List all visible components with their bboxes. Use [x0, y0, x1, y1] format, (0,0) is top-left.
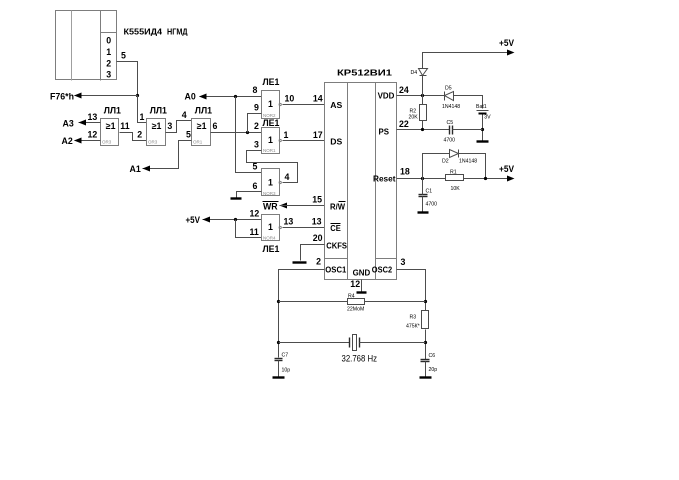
- svg-text:32.768 Hz: 32.768 Hz: [342, 353, 378, 363]
- diode D5: [445, 92, 454, 101]
- decoder output column divider: [101, 32, 117, 34]
- svg-text:ЛЕ1: ЛЕ1: [263, 118, 280, 128]
- ground CKFS: [293, 261, 307, 263]
- svg-text:D5: D5: [445, 86, 452, 92]
- arrow WR: [280, 203, 288, 209]
- wire Reset pin18 line: [397, 178, 446, 180]
- svg-text:1N4148: 1N4148: [459, 158, 477, 164]
- svg-text:20p: 20p: [429, 367, 438, 373]
- svg-text:12: 12: [250, 209, 260, 219]
- capacitor C5 plate left: [449, 126, 451, 135]
- wire C6 bottom: [425, 362, 427, 377]
- arrow A3: [79, 120, 87, 126]
- capacitor C7 plate top: [275, 358, 283, 360]
- svg-text:AS: AS: [330, 100, 342, 110]
- svg-text:NOR3: NOR3: [263, 191, 276, 196]
- wire A0 vertical to NOR3 in5: [236, 97, 262, 173]
- ground C1: [418, 211, 429, 213]
- arrow +5V left: [203, 217, 211, 223]
- SECTION: bottom circuit: [273, 270, 438, 378]
- wire R4 line left: [279, 301, 348, 303]
- svg-text:C5: C5: [447, 120, 454, 126]
- SECTION: decoder block: [50, 11, 188, 123]
- svg-text:2: 2: [254, 121, 259, 131]
- svg-text:ЛЛ1: ЛЛ1: [104, 106, 121, 116]
- svg-text:14: 14: [313, 94, 323, 104]
- svg-text:20: 20: [313, 233, 323, 243]
- wire C1 bottom: [422, 197, 424, 212]
- resistor R4 body: [348, 299, 365, 305]
- wire pin24 up to +5V: [422, 76, 424, 96]
- svg-text:4700: 4700: [444, 137, 456, 143]
- ground C6: [420, 376, 432, 378]
- wire NOR3 in6 to ground: [237, 192, 262, 198]
- node R1-D2 junction: [484, 177, 487, 180]
- svg-text:НГМД: НГМД: [167, 27, 188, 37]
- wire C5 to battery junction: [453, 129, 483, 131]
- wire C7 bottom: [278, 361, 280, 377]
- svg-text:1: 1: [268, 135, 273, 145]
- svg-text:+5V: +5V: [499, 164, 514, 174]
- svg-text:VDD: VDD: [378, 91, 395, 101]
- SECTION: main chip: [293, 68, 410, 293]
- wire junction down to OR2 input 1: [138, 96, 147, 123]
- wire crystal line left: [279, 342, 350, 344]
- crystal ZQ1 plate left: [349, 338, 351, 348]
- battery Bat1 long plate: [477, 110, 489, 112]
- svg-text:24: 24: [399, 85, 409, 95]
- svg-text:WR: WR: [263, 201, 278, 211]
- svg-text:CE: CE: [330, 223, 341, 233]
- or-gate DD2.1 LL1 body: [101, 119, 119, 146]
- pin name R/W overline: [339, 201, 346, 203]
- svg-text:6: 6: [253, 181, 258, 191]
- diode D2 cathode bar: [458, 150, 460, 158]
- svg-text:475К*: 475К*: [406, 323, 420, 329]
- svg-text:C7: C7: [282, 352, 289, 358]
- svg-text:OR3: OR3: [148, 140, 158, 145]
- svg-text:3: 3: [401, 257, 406, 267]
- node OSC2-R4 junction: [424, 300, 427, 303]
- capacitor C6 plate top: [421, 359, 430, 361]
- ground GND pin: [357, 291, 367, 293]
- wire R2 bottom: [422, 121, 424, 130]
- svg-text:1: 1: [284, 130, 289, 140]
- wire D5 to battery top: [454, 96, 483, 109]
- svg-text:22: 22: [399, 119, 409, 129]
- wire R1 to +5V arrow: [464, 178, 508, 180]
- nor-gate DD3.4 output bubble: [279, 226, 281, 228]
- node pin18 junction C1: [421, 177, 424, 180]
- nor-gate DD3.1 body: [262, 91, 280, 119]
- arrow +5V reset: [507, 176, 515, 182]
- IC U1 divider left: [347, 83, 349, 280]
- ground battery: [477, 140, 489, 142]
- node battery-C5 junction: [481, 128, 484, 131]
- svg-text:D4: D4: [411, 70, 418, 76]
- svg-text:R/W: R/W: [330, 201, 345, 211]
- diode D2: [450, 150, 459, 158]
- nor-gate DD3.3 output bubble: [279, 181, 281, 183]
- wire A2 to pin12: [75, 140, 101, 142]
- svg-text:3: 3: [106, 70, 111, 80]
- svg-text:OSC1: OSC1: [325, 264, 346, 274]
- wire R3 bottom to C6: [425, 330, 427, 360]
- battery Bat1 short plate: [479, 113, 487, 115]
- or-gate DD2.3 LL1 body: [192, 119, 211, 146]
- svg-text:5: 5: [186, 130, 191, 140]
- wire NOR1 in9 step: [248, 114, 262, 133]
- svg-text:13: 13: [312, 216, 322, 226]
- arrow A1: [143, 166, 151, 172]
- arrow +5V top: [507, 50, 515, 56]
- node out6 junction: [246, 131, 249, 134]
- svg-text:ЛЛ1: ЛЛ1: [195, 106, 212, 116]
- capacitor C1 plate bottom: [419, 196, 428, 198]
- wire +5V down to NOR4 in11: [236, 220, 262, 238]
- wire GND pin to ground: [361, 280, 363, 292]
- wire A0 line to NOR1 in8: [200, 96, 262, 98]
- capacitor C7 plate bottom: [275, 360, 283, 362]
- svg-text:4: 4: [285, 172, 290, 182]
- svg-text:8: 8: [253, 85, 258, 95]
- ground C7: [273, 376, 285, 378]
- svg-text:4: 4: [182, 110, 187, 120]
- capacitor C6 plate bottom: [421, 361, 430, 363]
- or-gate DD2.2 LL1 body: [147, 119, 166, 146]
- svg-text:10: 10: [285, 94, 295, 104]
- wire WR to chip R/W: [280, 205, 325, 207]
- svg-text:1N4148: 1N4148: [442, 104, 460, 110]
- svg-text:C6: C6: [429, 353, 436, 359]
- svg-text:1: 1: [268, 99, 273, 109]
- svg-text:5: 5: [121, 50, 126, 60]
- svg-text:NOR1: NOR1: [263, 148, 276, 153]
- svg-text:ЛЕ1: ЛЕ1: [263, 77, 280, 87]
- svg-text:R1: R1: [450, 169, 457, 175]
- SECTION: right circuit: [397, 38, 515, 213]
- svg-text:12: 12: [350, 279, 360, 289]
- svg-text:ЛЛ1: ЛЛ1: [150, 106, 167, 116]
- svg-text:20K: 20K: [409, 115, 419, 121]
- svg-text:≥1: ≥1: [152, 121, 162, 131]
- IC U1 divider above OSC1: [325, 258, 348, 260]
- svg-text:Bat1: Bat1: [476, 104, 487, 110]
- svg-text:10p: 10p: [282, 367, 291, 373]
- nor-gate DD3.1 output bubble: [279, 103, 281, 105]
- svg-text:PS: PS: [379, 126, 390, 136]
- svg-text:+5V: +5V: [186, 215, 201, 225]
- IC U1 divider above OSC2: [376, 258, 397, 260]
- svg-text:CKFS: CKFS: [326, 241, 347, 251]
- wire OR3 out6 to NOR2 in2: [211, 132, 262, 134]
- resistor R3 body: [422, 311, 429, 329]
- wire D2 branch up: [423, 154, 450, 179]
- nor-gate DD3.2 body: [262, 128, 280, 154]
- wire NOR2 out1 to chip DS: [283, 140, 325, 142]
- SECTION: or gates: [62, 106, 262, 175]
- wire CKFS to ground: [301, 245, 325, 261]
- svg-text:15: 15: [312, 194, 322, 204]
- svg-text:3: 3: [167, 121, 172, 131]
- wire D4 to +5V line: [423, 53, 508, 69]
- node +5V junction: [234, 218, 237, 221]
- diode D4 vertical: [419, 69, 428, 76]
- svg-text:≥1: ≥1: [106, 121, 116, 131]
- diode D4 cathode bar: [420, 75, 427, 77]
- svg-text:11: 11: [120, 121, 129, 131]
- svg-text:A2: A2: [62, 136, 73, 146]
- arrow F76*h: [74, 93, 82, 99]
- wire NOR3 out4 loop to NOR2 in3: [247, 151, 298, 183]
- arrow A0: [199, 94, 207, 100]
- node F76 junction: [136, 94, 139, 97]
- arrow A2: [74, 138, 82, 144]
- svg-text:≥1: ≥1: [197, 121, 207, 131]
- nor-gate DD3.4 body: [262, 215, 280, 241]
- nor-gate DD3.3 body: [262, 169, 280, 196]
- crystal ZQ1 plate right: [359, 338, 361, 348]
- svg-text:2: 2: [106, 58, 111, 68]
- wire A3 to pin13: [79, 122, 101, 124]
- svg-text:2: 2: [137, 129, 142, 139]
- wire OSC2 right and down: [397, 270, 426, 311]
- decoder DD1 K555ID4 body: [56, 11, 117, 80]
- svg-text:NOR4: NOR4: [263, 235, 276, 240]
- ground NOR3 in6: [231, 197, 242, 199]
- svg-text:13: 13: [88, 112, 98, 122]
- resistor R1 body: [446, 175, 464, 181]
- SECTION: nor gates: [185, 77, 325, 254]
- node crystal-R3 junction: [424, 341, 427, 344]
- node A0 junction: [234, 95, 237, 98]
- svg-text:R4: R4: [348, 293, 355, 299]
- wire OSC1 left and down: [279, 270, 325, 358]
- node OSC1-R4 junction: [277, 300, 280, 303]
- wire NOR1 out10 to chip AS: [283, 104, 325, 106]
- svg-text:К555ИД4: К555ИД4: [124, 27, 163, 37]
- svg-text:A0: A0: [185, 92, 196, 102]
- svg-text:9: 9: [254, 103, 259, 113]
- svg-text:11: 11: [250, 227, 259, 237]
- svg-text:18: 18: [400, 167, 410, 177]
- IC U1 body: [325, 83, 397, 280]
- svg-text:КР512ВИ1: КР512ВИ1: [337, 68, 393, 78]
- svg-text:R3: R3: [410, 314, 417, 320]
- wire A1 to OR3 in5: [143, 141, 192, 169]
- svg-text:DS: DS: [330, 136, 342, 146]
- svg-text:13: 13: [284, 216, 294, 226]
- svg-text:OR3: OR3: [102, 140, 112, 145]
- svg-text:22МоМ: 22МоМ: [347, 307, 364, 313]
- wire F76 line: [75, 95, 138, 97]
- svg-text:ЛЕ1: ЛЕ1: [263, 244, 280, 254]
- svg-text:10K: 10K: [451, 186, 461, 192]
- svg-text:F76*h: F76*h: [50, 91, 74, 101]
- svg-text:1: 1: [140, 112, 145, 122]
- node pin22 junction: [421, 128, 424, 131]
- wire decoder pin5 to junction: [117, 62, 138, 96]
- capacitor C1 plate top: [419, 194, 428, 196]
- svg-text:1: 1: [268, 222, 273, 232]
- svg-text:A3: A3: [63, 119, 74, 129]
- decoder internal divider 2: [100, 11, 102, 81]
- svg-text:GND: GND: [353, 268, 371, 278]
- wire OR2 out3 to OR3 in4: [166, 121, 192, 133]
- svg-text:1: 1: [106, 47, 111, 57]
- decoder internal divider 1: [71, 11, 73, 81]
- svg-text:6: 6: [213, 121, 218, 131]
- WR overline: [263, 201, 279, 203]
- svg-text:3: 3: [254, 139, 259, 149]
- svg-text:+5V: +5V: [499, 38, 514, 48]
- svg-text:1: 1: [268, 178, 273, 188]
- wire battery bottom: [482, 115, 484, 141]
- resistor R2 body: [420, 105, 427, 121]
- svg-text:12: 12: [88, 129, 98, 139]
- svg-text:0: 0: [106, 36, 111, 46]
- svg-text:4700: 4700: [426, 202, 438, 208]
- wire OR1 out11 to OR2 in2: [120, 133, 147, 141]
- svg-text:2: 2: [316, 257, 321, 267]
- svg-text:C1: C1: [426, 188, 433, 194]
- svg-text:D2: D2: [442, 158, 449, 164]
- wire +5V to NOR4 in12: [203, 219, 262, 221]
- nor-gate DD3.2 output bubble: [279, 139, 281, 141]
- svg-text:17: 17: [313, 130, 323, 140]
- capacitor C5 plate right: [452, 126, 454, 135]
- diode D5 cathode bar: [444, 92, 446, 101]
- svg-text:OR1: OR1: [193, 140, 203, 145]
- svg-text:3V: 3V: [484, 114, 491, 120]
- wire NOR4 out13 to chip CE: [283, 227, 325, 229]
- pin name CE overline: [331, 223, 341, 225]
- wire PS pin22 line: [397, 129, 450, 131]
- wire R4 line right: [365, 301, 426, 303]
- wire crystal line right: [360, 342, 426, 344]
- wire D2 to junction right: [459, 154, 486, 179]
- wire C1 top: [422, 179, 424, 195]
- svg-text:Reset: Reset: [373, 173, 396, 183]
- wire VDD pin24 line: [397, 95, 445, 97]
- svg-text:OSC2: OSC2: [372, 264, 393, 274]
- node OSC1-crystal junction: [277, 341, 280, 344]
- wire R2 top: [422, 96, 424, 105]
- svg-text:5: 5: [253, 162, 258, 172]
- IC U1 divider right: [375, 83, 377, 280]
- node pin24 junction: [421, 94, 424, 97]
- svg-text:A1: A1: [130, 164, 141, 174]
- crystal ZQ1 body: [353, 335, 357, 351]
